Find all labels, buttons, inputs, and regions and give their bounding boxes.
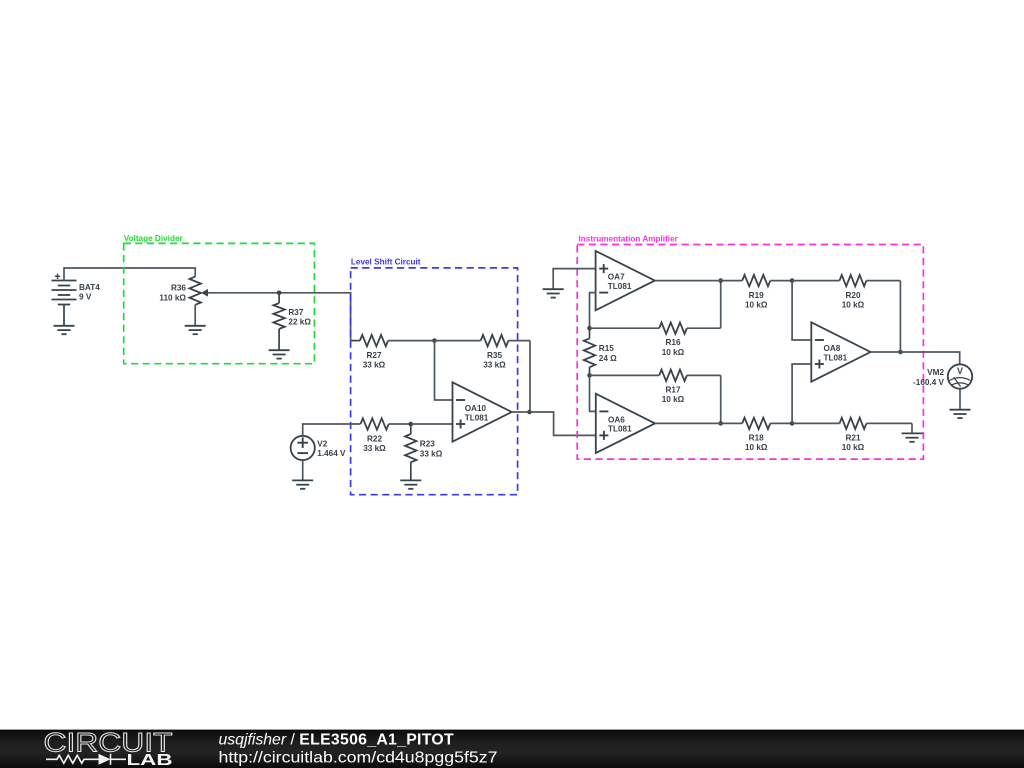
svg-text:24 Ω: 24 Ω — [599, 354, 617, 363]
wire R20 to OA8 output — [899, 281, 901, 352]
svg-text:33 kΩ: 33 kΩ — [363, 361, 386, 370]
resistor R15 — [584, 328, 617, 375]
wire OA7 output rail — [655, 280, 742, 282]
wire OA10 output to OA6 non-inverting input — [512, 411, 530, 413]
op-amp OA10 — [453, 382, 512, 441]
box Level Shift Circuit — [351, 258, 518, 495]
resistor R20 — [792, 275, 900, 309]
voltage source V2 — [291, 436, 346, 460]
svg-text:R27: R27 — [366, 351, 381, 360]
node F (OA6 output) — [718, 421, 723, 426]
svg-text:TL081: TL081 — [465, 413, 489, 422]
node A (R27/R35/OA10 inverting) — [432, 338, 437, 343]
svg-text:1.464 V: 1.464 V — [317, 449, 346, 458]
svg-text:10 kΩ: 10 kΩ — [745, 300, 768, 309]
svg-text:R36: R36 — [171, 284, 186, 293]
resistor R37 — [273, 293, 311, 350]
ground (R21) — [902, 433, 923, 441]
resistor R18 — [742, 418, 792, 452]
svg-text:R23: R23 — [420, 440, 435, 449]
op-amp OA8 — [811, 322, 870, 381]
op-amp OA6 — [596, 394, 655, 453]
voltmeter VM2 — [913, 364, 972, 388]
ground (R36) — [185, 326, 206, 334]
svg-text:10 kΩ: 10 kΩ — [842, 300, 865, 309]
svg-text:LAB: LAB — [127, 752, 173, 768]
node B (R22/R23/OA10 non-inverting) — [409, 422, 414, 427]
svg-text:10 kΩ: 10 kΩ — [842, 443, 865, 452]
svg-text:R22: R22 — [367, 435, 382, 444]
svg-text:33 kΩ: 33 kΩ — [483, 361, 506, 370]
node H (OA8 output) — [898, 350, 903, 355]
battery BAT4 — [52, 274, 101, 326]
resistor R22 — [361, 418, 411, 453]
svg-text:V2: V2 — [317, 440, 327, 449]
node R37 junction — [277, 291, 282, 296]
wire R21 to ground — [911, 423, 913, 433]
wire OA7 inverting to node C — [590, 293, 596, 329]
wire R17 to OA6 output rail — [720, 375, 722, 423]
ground (R37) — [269, 350, 290, 358]
resistor R27 — [351, 335, 435, 370]
wire OA8 output to VM2 — [871, 351, 901, 353]
wire R36 bottom to ground — [194, 305, 196, 326]
node C (R15 top) — [587, 326, 592, 331]
svg-text:http://circuitlab.com/cd4u8pgg: http://circuitlab.com/cd4u8pgg5f5z7 — [219, 750, 498, 767]
op-amp OA7 — [596, 251, 655, 310]
svg-text:9 V: 9 V — [79, 292, 92, 301]
resistor R17 — [590, 370, 721, 404]
box Instrumentation Amplifier — [577, 234, 923, 459]
wire OA6 output rail — [655, 422, 742, 424]
wire node G to OA8 inverting input — [792, 281, 811, 340]
wire node I to OA8 non-inverting input — [792, 364, 811, 423]
resistor R19 — [742, 275, 792, 309]
svg-text:BAT4: BAT4 — [79, 283, 100, 292]
svg-text:10 kΩ: 10 kΩ — [662, 395, 685, 404]
wire VM2 to ground — [959, 389, 961, 410]
wire node B to OA10 non-inverting input — [411, 423, 453, 425]
resistor R35 — [435, 335, 531, 370]
ground (VM2) — [950, 410, 971, 418]
wire battery top to R36 — [64, 268, 195, 281]
wire V2 to ground — [302, 460, 304, 480]
svg-text:R37: R37 — [288, 308, 303, 317]
wire node A to OA10 inverting input — [435, 341, 453, 400]
resistor R23 — [405, 424, 443, 480]
svg-text:33 kΩ: 33 kΩ — [363, 444, 386, 453]
svg-text:10 kΩ: 10 kΩ — [745, 443, 768, 452]
wire node D to OA6 inverting input — [590, 375, 596, 411]
svg-text:OA10: OA10 — [465, 404, 487, 413]
svg-text:V: V — [957, 366, 963, 376]
ground (V2) — [292, 480, 313, 488]
svg-text:R18: R18 — [749, 434, 764, 443]
wire R35 to OA10 output — [529, 341, 531, 412]
svg-text:R21: R21 — [845, 434, 860, 443]
svg-text:R16: R16 — [665, 338, 680, 347]
svg-text:10 kΩ: 10 kΩ — [662, 348, 685, 357]
svg-text:usqjfisher / ELE3506_A1_PITOT: usqjfisher / ELE3506_A1_PITOT — [219, 731, 454, 748]
ground (R23) — [400, 480, 421, 488]
svg-text:OA6: OA6 — [608, 415, 625, 424]
svg-text:TL081: TL081 — [608, 425, 632, 434]
box Voltage Divider — [124, 234, 315, 364]
ground (BAT4) — [54, 326, 75, 334]
node I (R18/R21/OA8 non-inverting) — [790, 421, 795, 426]
svg-text:VM2: VM2 — [927, 368, 944, 377]
wire OA7 non-inverting to ground — [553, 269, 595, 289]
wire R16 to OA7 output rail — [720, 281, 722, 329]
potentiometer R36 — [159, 277, 215, 305]
svg-text:110 kΩ: 110 kΩ — [159, 294, 186, 303]
svg-text:R19: R19 — [749, 291, 764, 300]
node E (OA7 output) — [718, 278, 723, 283]
wire V2 to R22 — [303, 424, 361, 436]
svg-text:R20: R20 — [845, 291, 860, 300]
resistor R16 — [590, 323, 721, 357]
svg-text:R35: R35 — [487, 351, 502, 360]
svg-text:Voltage Divider: Voltage Divider — [124, 234, 184, 243]
CircuitLab logo — [44, 728, 173, 768]
svg-text:R15: R15 — [599, 344, 614, 353]
node D (R15 bottom) — [587, 373, 592, 378]
node G (R19/R20/OA8 inverting) — [790, 278, 795, 283]
ground (OA7) — [543, 289, 564, 297]
svg-text:TL081: TL081 — [824, 353, 848, 362]
svg-text:22 kΩ: 22 kΩ — [288, 318, 311, 327]
svg-text:33 kΩ: 33 kΩ — [420, 449, 443, 458]
node OA10 output — [527, 410, 532, 415]
svg-text:Level Shift Circuit: Level Shift Circuit — [351, 258, 421, 267]
svg-text:OA8: OA8 — [824, 344, 841, 353]
wire wiper to level shift — [214, 293, 351, 341]
svg-text:-160.4 V: -160.4 V — [913, 378, 944, 387]
svg-text:R17: R17 — [665, 385, 680, 394]
svg-text:TL081: TL081 — [608, 282, 632, 291]
svg-text:Instrumentation Amplifier: Instrumentation Amplifier — [579, 234, 679, 243]
resistor R21 — [792, 418, 912, 452]
svg-text:OA7: OA7 — [608, 273, 625, 282]
